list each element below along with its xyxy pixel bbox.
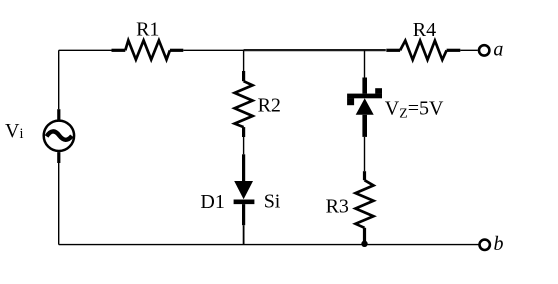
svg-text:R2: R2	[258, 95, 281, 117]
terminal a	[479, 45, 489, 55]
svg-text:D1: D1	[200, 191, 224, 213]
wire R2 to D1	[243, 137, 245, 154]
svg-text:R4: R4	[413, 19, 436, 41]
wire left rail	[58, 50, 60, 109]
svg-text:VZ=5V: VZ=5V	[385, 98, 444, 121]
diode D1	[234, 154, 255, 225]
wire zener to R3	[364, 137, 366, 171]
resistor R2	[235, 71, 253, 137]
svg-text:a: a	[493, 38, 503, 60]
svg-text:b: b	[494, 233, 504, 255]
svg-text:Si: Si	[264, 191, 281, 213]
wire top rail right segment	[460, 49, 478, 51]
zener diode DZ	[347, 78, 382, 137]
wire R2 branch top	[243, 50, 245, 71]
resistor R3	[356, 171, 374, 244]
wire top rail middle segment	[183, 49, 245, 51]
wire bottom rail	[59, 244, 479, 246]
wire D1 to bottom rail	[243, 225, 245, 244]
svg-text:R1: R1	[136, 19, 159, 41]
svg-text:R3: R3	[326, 195, 349, 217]
wire left rail lower	[58, 163, 60, 245]
junction dot	[361, 241, 367, 247]
source Vi	[44, 109, 74, 163]
wire top rail overlapped segment	[244, 49, 386, 51]
resistor R1	[112, 40, 184, 59]
wire top rail left segment	[59, 49, 112, 51]
wire zener branch top	[364, 50, 366, 77]
resistor R4	[386, 41, 460, 60]
terminal b	[480, 240, 490, 250]
